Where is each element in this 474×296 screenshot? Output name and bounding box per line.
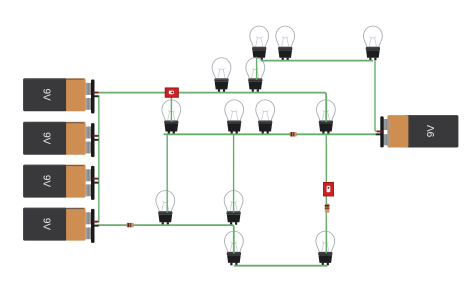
lamp L1	[250, 26, 269, 60]
lamp L11	[224, 191, 243, 225]
stub battery BAT5 positive	[377, 131, 383, 133]
wire lamp L3 to battery BAT5 plus	[375, 61, 379, 132]
resistor R2	[127, 223, 134, 227]
battery BAT1 9V	[23, 78, 94, 113]
wire battery series chain BAT1-BAT4	[98, 96, 100, 222]
resistor R1	[290, 132, 297, 136]
wire lamp L6 to lamp L10 socket	[166, 134, 168, 212]
battery BAT5 9V (right, terminals left)	[380, 115, 458, 147]
stub battery BAT1 negative	[93, 95, 98, 97]
wire row C bus lamp L6 to battery BAT5 minus	[164, 133, 377, 135]
battery BAT3 9V	[23, 165, 94, 200]
lamp L4	[212, 58, 231, 92]
stub battery BAT2 positive	[93, 135, 98, 137]
wire switch S1 to lamp L6 socket	[170, 97, 172, 122]
lamp L2	[276, 26, 295, 60]
wire lamp L9 through switch S2 and resistor R3 to lamp L13 socket	[325, 134, 327, 253]
wire battery BAT4 minus to corner and lamp L12 socket	[98, 225, 234, 253]
lamp L13	[316, 231, 335, 265]
resistor R3	[325, 204, 330, 213]
lamp L3	[364, 26, 383, 60]
lamp L8	[256, 100, 275, 134]
wire bottom bus lamp L12 to lamp L13	[235, 265, 327, 267]
svg-text:9V: 9V	[426, 125, 437, 138]
wire lamp L7 to lamp L11 socket	[233, 134, 235, 212]
lamp L6	[162, 100, 181, 134]
stub battery BAT1 positive	[93, 92, 98, 94]
battery BAT2 9V	[23, 122, 94, 157]
lamp L10	[156, 191, 175, 225]
stub battery BAT4 negative	[93, 225, 98, 227]
switch S1	[165, 88, 178, 97]
lamp L9	[317, 100, 336, 134]
stub battery BAT3 negative	[93, 182, 98, 184]
stub battery BAT5 negative	[376, 133, 383, 135]
lamp L12	[225, 231, 244, 265]
wire battery BAT1 plus to node corner and lamp L9 socket	[98, 93, 327, 122]
stub battery BAT4 positive	[93, 221, 98, 223]
battery BAT4 9V	[23, 208, 94, 243]
wire lamp L1 to lamp L5 socket	[256, 58, 258, 80]
lamp L7	[225, 100, 244, 134]
wire top bus lamp L1 to lamp L3	[262, 60, 373, 62]
stub battery BAT3 positive	[93, 178, 98, 180]
lamp L5	[246, 58, 265, 92]
stub battery BAT2 negative	[93, 139, 98, 141]
switch S2	[324, 182, 334, 196]
